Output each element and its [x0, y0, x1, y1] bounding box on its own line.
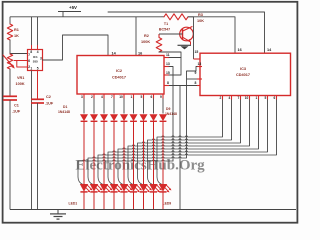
- wire collector node to IC3 pin15: [188, 17, 202, 59]
- diode D8: [150, 115, 157, 122]
- resistor R3: [161, 14, 188, 20]
- wire IC1 pin5 to C2: [37, 71, 39, 100]
- op-amp U3 IC3 CD4017 box: [200, 53, 291, 95]
- wire feed line to LED column x128: [128, 145, 250, 185]
- svg-text:9: 9: [195, 71, 197, 75]
- wire feed line to LED column x157: [157, 136, 223, 185]
- +5V stub wire: [58, 12, 81, 17]
- svg-text:D9: D9: [166, 107, 170, 111]
- LED2: [90, 184, 102, 192]
- svg-text:8: 8: [195, 81, 197, 85]
- svg-text:4: 4: [101, 95, 103, 99]
- wire VR1 wiper to IC1 pins 2 and 6: [14, 61, 28, 68]
- wire IC2 output pins down: [84, 94, 163, 114]
- svg-text:CD4017: CD4017: [112, 76, 126, 80]
- wire feed line to LED column x147.5: [148, 139, 232, 185]
- svg-text:1N4148: 1N4148: [58, 110, 70, 114]
- svg-text:6: 6: [274, 96, 276, 100]
- wire IC1 pin8 to +5V: [31, 17, 33, 50]
- ground symbol bottom: [50, 210, 66, 220]
- LED8: [150, 184, 162, 192]
- svg-text:16: 16: [238, 48, 242, 52]
- svg-text:100K: 100K: [16, 82, 25, 86]
- svg-text:R2: R2: [144, 34, 149, 38]
- svg-text:1: 1: [256, 96, 258, 100]
- svg-text:15: 15: [166, 71, 170, 75]
- wire ground rail: [10, 209, 296, 211]
- svg-text:16: 16: [138, 52, 142, 56]
- LED5: [120, 184, 132, 192]
- svg-text:.1UF: .1UF: [45, 102, 54, 106]
- svg-text:6: 6: [151, 95, 153, 99]
- wire feed line to LED column x88: [88, 157, 187, 185]
- svg-text:D1: D1: [63, 105, 67, 109]
- svg-text:R3: R3: [198, 13, 203, 17]
- svg-text:4: 4: [37, 50, 39, 54]
- wire LED cathodes to ground rail: [84, 192, 163, 210]
- wire +5V rail y16: [10, 16, 161, 18]
- svg-text:IC3: IC3: [240, 67, 246, 71]
- svg-text:555: 555: [33, 59, 38, 63]
- svg-text:13: 13: [166, 62, 170, 66]
- svg-text:10: 10: [119, 95, 123, 99]
- svg-text:5: 5: [141, 95, 143, 99]
- svg-text:10: 10: [245, 96, 249, 100]
- svg-text:13: 13: [198, 62, 202, 66]
- wire IC1 pin4 to +5V: [37, 17, 39, 50]
- svg-text:7: 7: [238, 96, 240, 100]
- wire C1 to ground rail: [9, 100, 11, 210]
- svg-text:3: 3: [81, 95, 83, 99]
- diode D7: [140, 115, 147, 122]
- potentiometer VR1: [3, 54, 15, 69]
- svg-text:5: 5: [265, 96, 267, 100]
- svg-text:1: 1: [30, 67, 32, 71]
- svg-text:8: 8: [30, 50, 32, 54]
- resistor R1: [7, 24, 12, 40]
- capacitor C1: [3, 96, 17, 100]
- svg-text:3: 3: [40, 56, 42, 60]
- LED7: [140, 184, 152, 192]
- wire IC3 pin13 loop: [187, 67, 203, 72]
- pin numbers IC2 bottom: [81, 95, 162, 99]
- svg-text:7: 7: [28, 53, 30, 57]
- LED6: [130, 184, 142, 192]
- wire R1 top: [9, 17, 11, 24]
- svg-text:100K: 100K: [141, 40, 150, 44]
- svg-text:15: 15: [195, 50, 199, 54]
- wire ground net IC2 pin8 to IC3 pin8: [164, 85, 202, 87]
- wire R1 to IC1 pin7: [10, 40, 28, 54]
- svg-text:T1: T1: [164, 22, 168, 26]
- svg-text:11: 11: [166, 53, 170, 57]
- wire IC1 pin3 clock to IC2 pin14 and rail: [43, 35, 109, 60]
- svg-text:10K: 10K: [197, 19, 204, 23]
- wire feed line to LED column x137.5: [138, 142, 241, 185]
- LED1: [80, 184, 92, 192]
- svg-text:6: 6: [28, 59, 30, 63]
- LED4: [110, 184, 122, 192]
- diode D9: [160, 115, 167, 122]
- wire rail after R3 to IC3 pin16: [188, 17, 235, 53]
- wire R2 bottom to pin11 node: [159, 52, 181, 58]
- wire IC2 pin13 feed to LED1 column: [164, 67, 173, 162]
- wire ground drop to rail: [179, 86, 181, 210]
- svg-text:LED1: LED1: [69, 202, 78, 206]
- svg-text:1N4148: 1N4148: [165, 112, 177, 116]
- svg-text:1K: 1K: [14, 34, 19, 38]
- wire feed line to LED column x78: [78, 160, 173, 185]
- svg-text:5: 5: [37, 67, 39, 71]
- svg-text:R1: R1: [14, 28, 19, 32]
- svg-text:4: 4: [229, 96, 231, 100]
- wire IC3 pin9 feed: [187, 71, 203, 158]
- diode D1: [81, 115, 88, 122]
- wire feed line to LED column x108: [108, 151, 268, 185]
- transistor Q1 T1 BC547: [159, 27, 193, 45]
- LED3: [100, 184, 112, 192]
- LED9: [159, 184, 171, 192]
- op-amp U2 IC2 CD4017 box: [77, 56, 164, 95]
- wire VR1 bottom to C1: [9, 69, 11, 96]
- diode D4: [111, 115, 118, 122]
- diode D2: [91, 115, 98, 122]
- pin numbers IC3 bottom: [220, 96, 276, 100]
- svg-text:.1UF: .1UF: [12, 110, 21, 114]
- svg-text:BC547: BC547: [159, 28, 170, 32]
- svg-text:C1: C1: [14, 104, 19, 108]
- svg-text:14: 14: [267, 48, 272, 52]
- diode D6: [130, 115, 137, 122]
- wire C2 to ground rail: [37, 103, 39, 210]
- svg-text:CD4017: CD4017: [236, 73, 250, 77]
- svg-text:1: 1: [131, 95, 133, 99]
- svg-text:IC2: IC2: [116, 69, 122, 73]
- wire IC1 pin1 to ground rail: [31, 71, 33, 210]
- svg-text:9: 9: [160, 95, 162, 99]
- svg-text:LED9: LED9: [163, 202, 172, 206]
- wire clock rail y12: [108, 12, 265, 53]
- svg-text:+5V: +5V: [69, 5, 77, 10]
- wire IC2 pin16 to +5V: [135, 17, 137, 56]
- svg-text:VR1: VR1: [17, 76, 24, 80]
- wire IC2 pin11 to pin15 reset loop: [164, 58, 181, 76]
- svg-text:8: 8: [167, 81, 169, 85]
- diode D3: [101, 115, 108, 122]
- svg-text:7: 7: [111, 95, 113, 99]
- resistor R2: [156, 34, 162, 52]
- wire IC3 output pins down: [223, 96, 277, 156]
- capacitor C2: [31, 99, 44, 103]
- svg-text:C2: C2: [46, 95, 51, 99]
- wire diode outputs down to LEDs: [84, 121, 163, 184]
- wire feed line to LED column x118: [118, 148, 259, 185]
- ground symbol at T1 emitter: [178, 45, 192, 49]
- diode D5: [121, 115, 128, 122]
- wire feed line to LED column x98: [98, 154, 277, 185]
- svg-text:2: 2: [91, 95, 93, 99]
- op-amp U1 IC1 555 box: [28, 50, 43, 71]
- svg-text:2: 2: [220, 96, 222, 100]
